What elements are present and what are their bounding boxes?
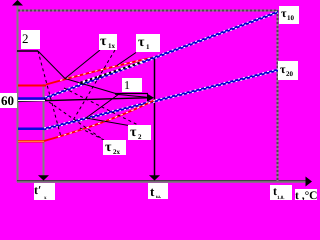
box tau20 bbox=[278, 61, 298, 80]
upper red horizontal bbox=[18, 85, 46, 87]
svg-text:t ,°C: t ,°C bbox=[295, 190, 317, 200]
vertical black line at t_x0 bbox=[154, 57, 156, 176]
svg-text:τ: τ bbox=[100, 34, 107, 49]
vertical line at t'x bbox=[43, 84, 45, 176]
box tau1x bbox=[99, 34, 117, 50]
x-axis bbox=[17, 180, 306, 182]
box 1 bbox=[122, 78, 142, 92]
svg-text:60: 60 bbox=[1, 93, 14, 108]
svg-text:τ: τ bbox=[130, 125, 137, 140]
svg-text:10: 10 bbox=[287, 14, 295, 22]
upper red curve bbox=[46, 57, 155, 85]
leader: tau1 to upper red curve bbox=[117, 53, 136, 66]
lower red horizontal bbox=[18, 140, 44, 142]
t_x0 down arrowhead bbox=[149, 175, 160, 180]
right vertical dashed line bbox=[277, 10, 279, 181]
leader: tau2 box to lower blue bbox=[86, 118, 129, 126]
svg-text:1x: 1x bbox=[108, 42, 116, 50]
box tau10 bbox=[279, 6, 299, 24]
t'x down arrowhead bbox=[38, 175, 49, 180]
svg-text:20: 20 bbox=[286, 70, 294, 78]
leader: tau2x to lower red (dashed) bbox=[78, 127, 104, 140]
box 60 bbox=[0, 93, 17, 108]
leader: long dashed to tau2x box bbox=[44, 99, 103, 140]
box tau1 bbox=[136, 34, 160, 52]
box 1 underline bbox=[115, 93, 148, 95]
svg-text:2: 2 bbox=[22, 31, 29, 46]
box tau2 bbox=[128, 125, 151, 140]
top dashed horizontal line bbox=[18, 10, 278, 12]
horizontal black line with right arrow (level 60) bbox=[18, 98, 147, 102]
upper blue horizontal bbox=[18, 97, 45, 99]
black dashed companion curve (upper) bbox=[78, 62, 142, 83]
box t,C axis label bbox=[295, 189, 317, 200]
svg-text:1.0.: 1.0. bbox=[277, 195, 285, 200]
x-axis arrowhead bbox=[306, 177, 313, 187]
leader: box2 to upper red curve bbox=[38, 51, 65, 79]
lower blue horizontal bbox=[18, 128, 44, 131]
svg-text:2: 2 bbox=[138, 133, 142, 141]
svg-text:2x: 2x bbox=[113, 148, 121, 156]
svg-text:1: 1 bbox=[146, 43, 150, 51]
leader: tau1x to lower blue (dashed) bbox=[72, 50, 115, 122]
leader: long dashed to tau2 box bbox=[64, 88, 138, 125]
svg-text:t: t bbox=[150, 184, 155, 199]
white stripe under blue bbox=[18, 100, 45, 102]
svg-text:τ: τ bbox=[105, 140, 112, 155]
box t_1.0 (bottom right) bbox=[270, 185, 292, 200]
leader: box1 to lower blue bbox=[86, 94, 119, 118]
box 2 underline bbox=[17, 50, 38, 52]
upper blue line to tau10 bbox=[45, 11, 278, 99]
svg-text:τ: τ bbox=[138, 35, 145, 50]
box 2 bbox=[21, 30, 40, 49]
svg-text:1: 1 bbox=[124, 78, 130, 92]
box tau2x bbox=[103, 140, 126, 155]
box t_xo (bottom middle) bbox=[148, 183, 168, 199]
svg-text:t′: t′ bbox=[34, 183, 41, 197]
box t'x (bottom left) bbox=[34, 183, 55, 200]
y-axis arrowhead bbox=[12, 0, 23, 6]
svg-text:ы.: ы. bbox=[156, 195, 162, 200]
lower red curve bbox=[44, 100, 155, 141]
leader: box1 to upper red curve (long) bbox=[65, 79, 119, 95]
leader: tau1x to upper red curve bbox=[65, 50, 100, 79]
leader: box2 to lower red curve (dashed) bbox=[38, 51, 61, 137]
y-axis bbox=[17, 4, 19, 182]
lower blue line to tau20 bbox=[44, 69, 278, 130]
